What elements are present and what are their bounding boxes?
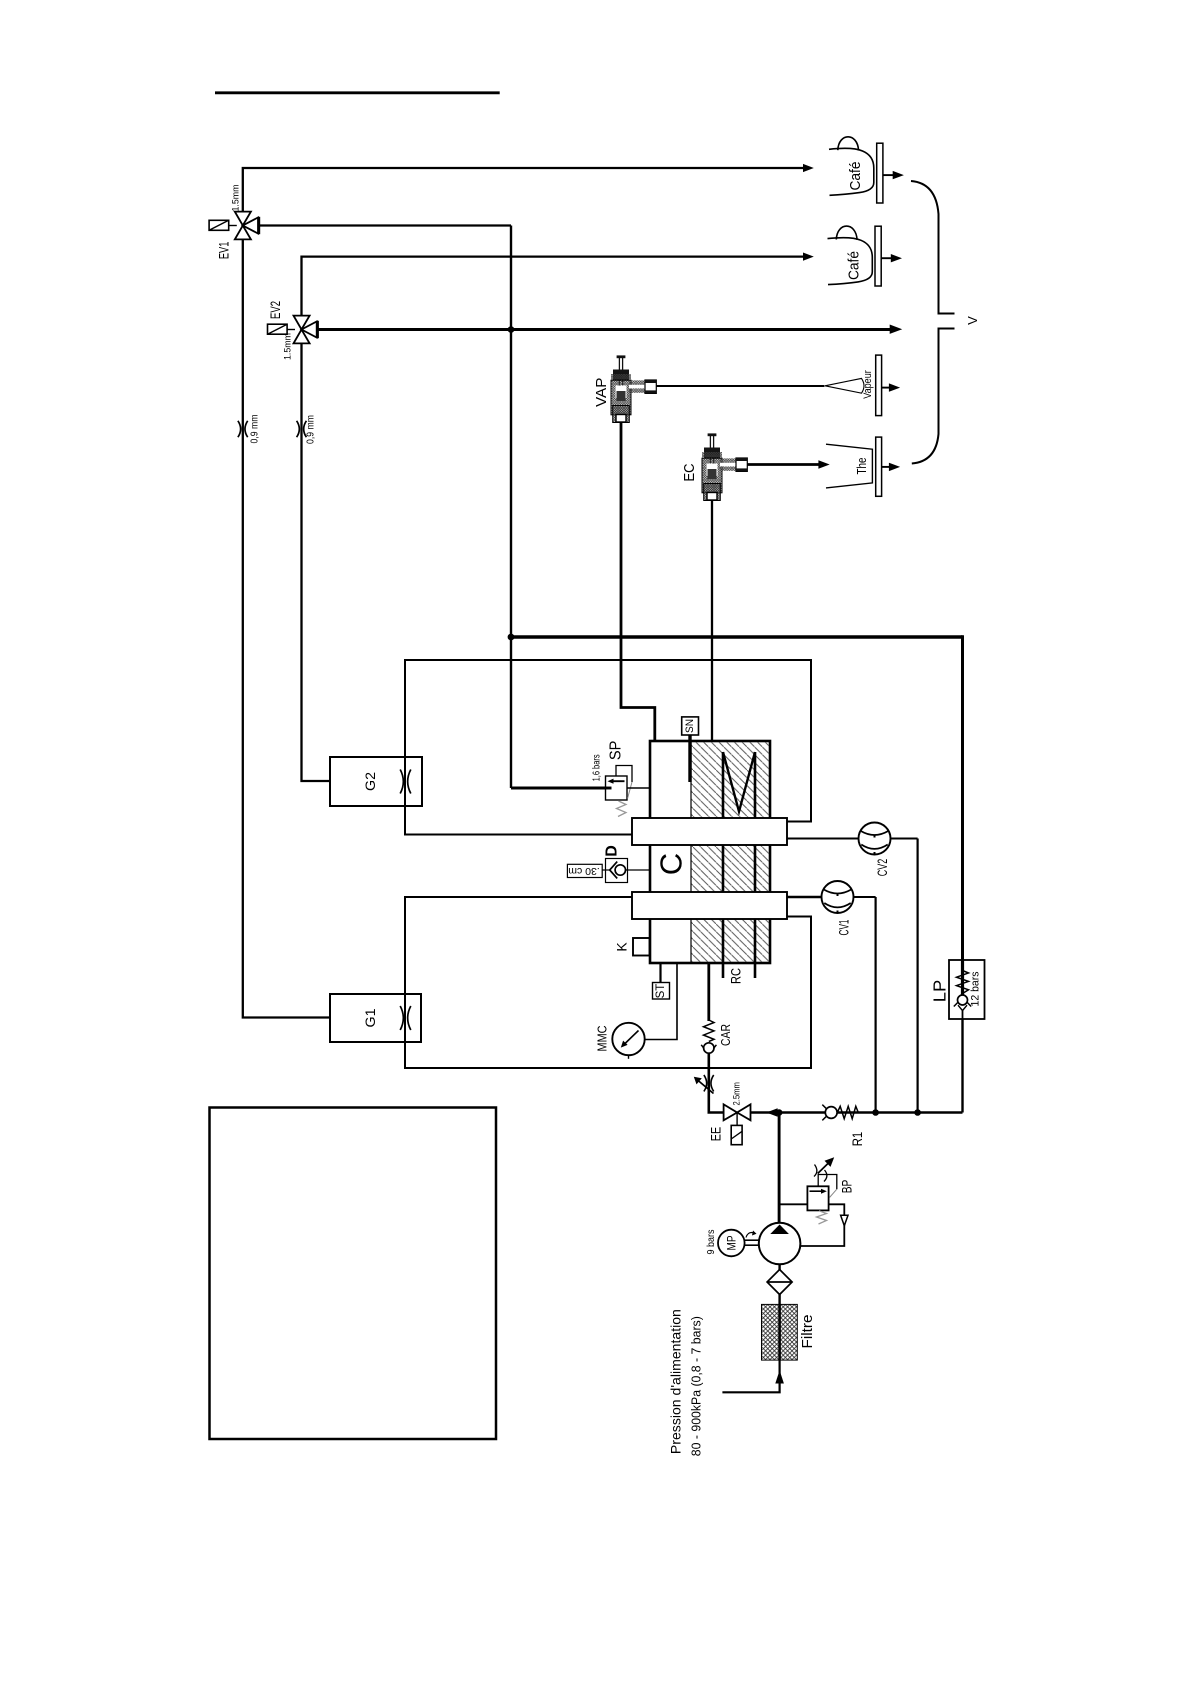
svg-text:The: The [854,458,869,475]
safety valve SP feed wire [511,787,609,790]
group loop rect B (lower group / G1 circuit) [405,897,811,1068]
check valve CV1 [788,881,876,913]
pump pressure bus wire [751,1111,963,1113]
svg-text:Café: Café [846,251,863,280]
steam tap VAP [611,355,656,422]
level probe SN box [682,717,699,735]
manometer MMC wire [645,963,677,1040]
bypass return wire [800,1204,844,1246]
coffee cup 1 [829,137,874,196]
svg-text:CV1: CV1 [836,919,852,935]
flow arrow into EE junction [766,1108,777,1117]
pump MP circle [759,1223,801,1265]
svg-text:CAR: CAR [719,1024,733,1046]
check valve CV1 riser [874,897,876,1113]
tea outflow arrow [882,463,901,471]
svg-text:BP: BP [840,1180,855,1194]
svg-text:0,9 mm: 0,9 mm [305,415,317,444]
flowmeter G1 [330,994,421,1042]
svg-text:C: C [654,853,689,875]
junction pump output [776,1109,783,1116]
solenoid valve EV1 [209,212,259,240]
anti-return valve CAR wire from boiler [707,963,710,1021]
bypass return arrow [841,1215,848,1226]
pressure limiter LP valve [954,960,971,1019]
junction CV1 line [872,1109,879,1116]
svg-text:0,9 mm: 0,9 mm [249,414,261,443]
wire EV2 to cup 2 [302,253,814,316]
svg-text:Café: Café [847,162,864,191]
svg-text:1.5mm: 1.5mm [283,333,294,360]
wire EV1 right port to drain column [260,224,511,226]
steam wand cone [825,378,864,393]
restrictor 0,9 mm (EV1 line) [238,421,248,437]
svg-text:K: K [614,942,630,952]
boiler heat-exchanger hatched block [691,741,769,963]
steam wand feed wire [656,385,825,387]
svg-text:G2: G2 [362,772,378,791]
wire EV1 down to G1 [243,239,330,1017]
svg-text:1.5mm: 1.5mm [230,184,241,211]
svg-text:SP: SP [608,741,625,761]
svg-text:R1: R1 [849,1132,865,1147]
junction EV1/EV2 drain [508,326,515,333]
hot water tap EC [702,433,747,500]
coffee cup 2 [828,226,873,285]
temperature probe ST wire [659,963,661,983]
expansion valve EE [724,1104,751,1144]
wire LP column down [961,635,964,960]
anti-return valve CAR [701,1020,716,1053]
drain brace lower [912,329,955,464]
group pipe band 2 (lower group) [632,892,787,919]
legend box (empty) [210,1108,497,1440]
vacuum breaker D [602,859,650,883]
check valve CV2 [788,823,918,855]
motor gauge MP [718,1230,759,1257]
junction CV2 line [914,1109,921,1116]
safety valve SP [606,766,633,817]
cup 2 outflow arrow [881,254,902,262]
heating element RC terminals [722,752,725,978]
SP outlet wire to boiler [627,787,650,789]
junction drain bus [508,634,515,641]
supply flow arrow [775,1370,784,1383]
wire EV2 drain to V arrow [318,325,902,334]
tea glass [826,444,872,488]
svg-text:SN: SN [684,719,696,733]
cup 2 tray [875,226,881,286]
svg-text:EV2: EV2 [267,301,283,319]
check valve CV2 riser [916,839,918,1113]
wire EV1 to cup 1 [243,164,814,212]
wire CAR down to EE [709,1053,724,1112]
pressure limiter LP box [949,960,985,1019]
svg-text:Filtre: Filtre [799,1315,816,1349]
svg-text:80 - 900kPa (0,8 - 7 bars): 80 - 900kPa (0,8 - 7 bars) [690,1316,704,1456]
wire EV2 down to G2 [302,343,331,781]
filter block [762,1304,798,1360]
svg-text:EC: EC [682,464,698,482]
svg-text:.30 cm: .30 cm [568,865,600,877]
solenoid valve EV2 [268,316,318,344]
wire pump to junction [778,1113,781,1225]
svg-text:MMC: MMC [595,1026,610,1052]
wire drain bus to LP column [511,635,963,639]
manometer MMC gauge [612,1023,644,1059]
svg-text:D: D [604,845,621,857]
wire drain column x511 [510,226,512,789]
calibrated valve R1 [822,1105,858,1121]
boiler C body [650,741,770,963]
svg-text:ST: ST [655,984,667,999]
klixon K box [633,938,650,956]
adjustable restrictor above EE [694,1075,714,1094]
hot water outlet wire to The cup [747,460,830,469]
svg-text:1,6 bars: 1,6 bars [591,754,602,781]
steam pipe from VAP tap to boiler [621,423,655,741]
svg-text:Pression d'alimentation: Pression d'alimentation [667,1309,683,1454]
svg-text:9 bars: 9 bars [705,1230,717,1255]
steam tray [876,355,882,416]
svg-text:LP: LP [930,980,950,1003]
temperature probe ST box [653,983,670,1000]
level probe SN shaft [688,735,691,782]
heating element RC zigzag [723,752,755,812]
flowmeter G2 [330,757,422,806]
svg-text:EE: EE [708,1127,724,1142]
svg-text:G1: G1 [362,1008,378,1027]
restrictor 0,9 mm (EV2 line) [297,421,307,437]
svg-text:VAP: VAP [594,378,610,408]
svg-text:V: V [965,316,980,325]
svg-text:Vapeur: Vapeur [862,370,874,399]
drain brace upper [911,181,955,314]
pump inlet check diamond [767,1264,792,1304]
title underline [215,91,500,94]
svg-text:2.5mm: 2.5mm [732,1082,742,1106]
svg-text:MP: MP [724,1236,738,1251]
cup 1 outflow arrow [883,171,904,179]
svg-text:12 bars: 12 bars [970,971,982,1006]
supply inlet wire [722,1360,779,1392]
svg-text:CV2: CV2 [874,859,890,877]
steam outflow arrow [882,383,901,391]
capacity label box 30 cm3 [567,864,602,877]
cup 1 tray [877,143,883,203]
group pipe band 1 (upper group) [632,818,787,845]
bypass valve BP feed wire [779,1203,807,1205]
svg-text:RC: RC [728,968,744,984]
tea tray [876,437,882,496]
group loop rect A (upper group / G2 circuit) [405,660,811,835]
svg-text:EV1: EV1 [215,242,231,260]
bypass valve BP [807,1157,836,1224]
hot water pipe from EC tap to boiler [711,501,713,741]
